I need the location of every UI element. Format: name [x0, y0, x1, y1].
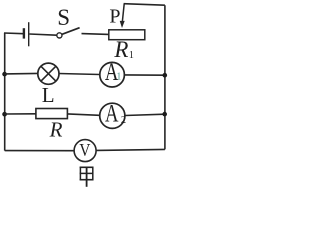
wire: A2 to right rail: [125, 114, 165, 115]
lamp L: cross stroke 1: [41, 66, 56, 81]
svg-text:1: 1: [129, 50, 134, 61]
label 甲: box right side: [92, 167, 94, 181]
label 甲: box bottom: [80, 179, 94, 181]
svg-text:A: A: [105, 101, 119, 128]
label 甲: box left side: [79, 167, 81, 181]
switch S: lever: [62, 28, 80, 35]
svg-text:L: L: [42, 83, 55, 107]
wire: resistor to ammeter A2: [68, 114, 100, 115]
wire: voltmeter to bottom-right corner: [97, 149, 165, 150]
rheostat R1: body: [109, 30, 145, 40]
svg-text:V: V: [79, 140, 90, 160]
svg-text:R: R: [49, 118, 63, 142]
rheostat R1: slider arrowhead: [120, 21, 125, 28]
lamp L: envelope: [38, 63, 59, 84]
junction dot: left row3: [2, 112, 7, 117]
svg-text:S: S: [57, 5, 70, 30]
junction dot: right row3: [162, 112, 167, 117]
wire: top-left horizontal to battery: [4, 32, 23, 35]
wire: lamp to ammeter A1: [59, 74, 100, 75]
rheostat R1: slider arrow stem: [122, 4, 124, 21]
junction dot: left row2: [2, 72, 7, 77]
wire: left vertical rail: [4, 33, 6, 151]
wire: bottom left to voltmeter: [5, 150, 74, 152]
label 甲 (drawn): box top: [80, 166, 94, 168]
battery: long thin plate (positive): [28, 22, 30, 46]
ammeter A2: case: [100, 103, 125, 128]
battery: short thick plate (negative): [23, 28, 25, 38]
label 甲: box middle bar: [80, 172, 94, 174]
wire: right vertical rail: [164, 5, 166, 149]
ammeter A1: case: [100, 62, 125, 87]
wire: A1 to right rail: [125, 74, 165, 76]
resistor R: body: [36, 109, 68, 119]
svg-text:P: P: [109, 6, 120, 28]
wire: switch to rheostat: [82, 33, 109, 36]
label 甲: center vertical stroke: [86, 167, 88, 187]
svg-text:R: R: [113, 37, 128, 62]
voltmeter V: case: [74, 140, 96, 162]
svg-text:2: 2: [121, 115, 126, 126]
wire: battery to switch: [29, 34, 56, 35]
junction dot: right row2: [163, 73, 168, 78]
lamp L: cross stroke 2: [41, 66, 56, 81]
wire: row2 left node to lamp: [5, 72, 38, 75]
wire: row3 left node to resistor: [5, 113, 36, 115]
svg-text:1: 1: [116, 72, 121, 83]
wire: slider to top-right corner: [124, 4, 165, 5]
switch S: pivot circle: [57, 33, 62, 38]
